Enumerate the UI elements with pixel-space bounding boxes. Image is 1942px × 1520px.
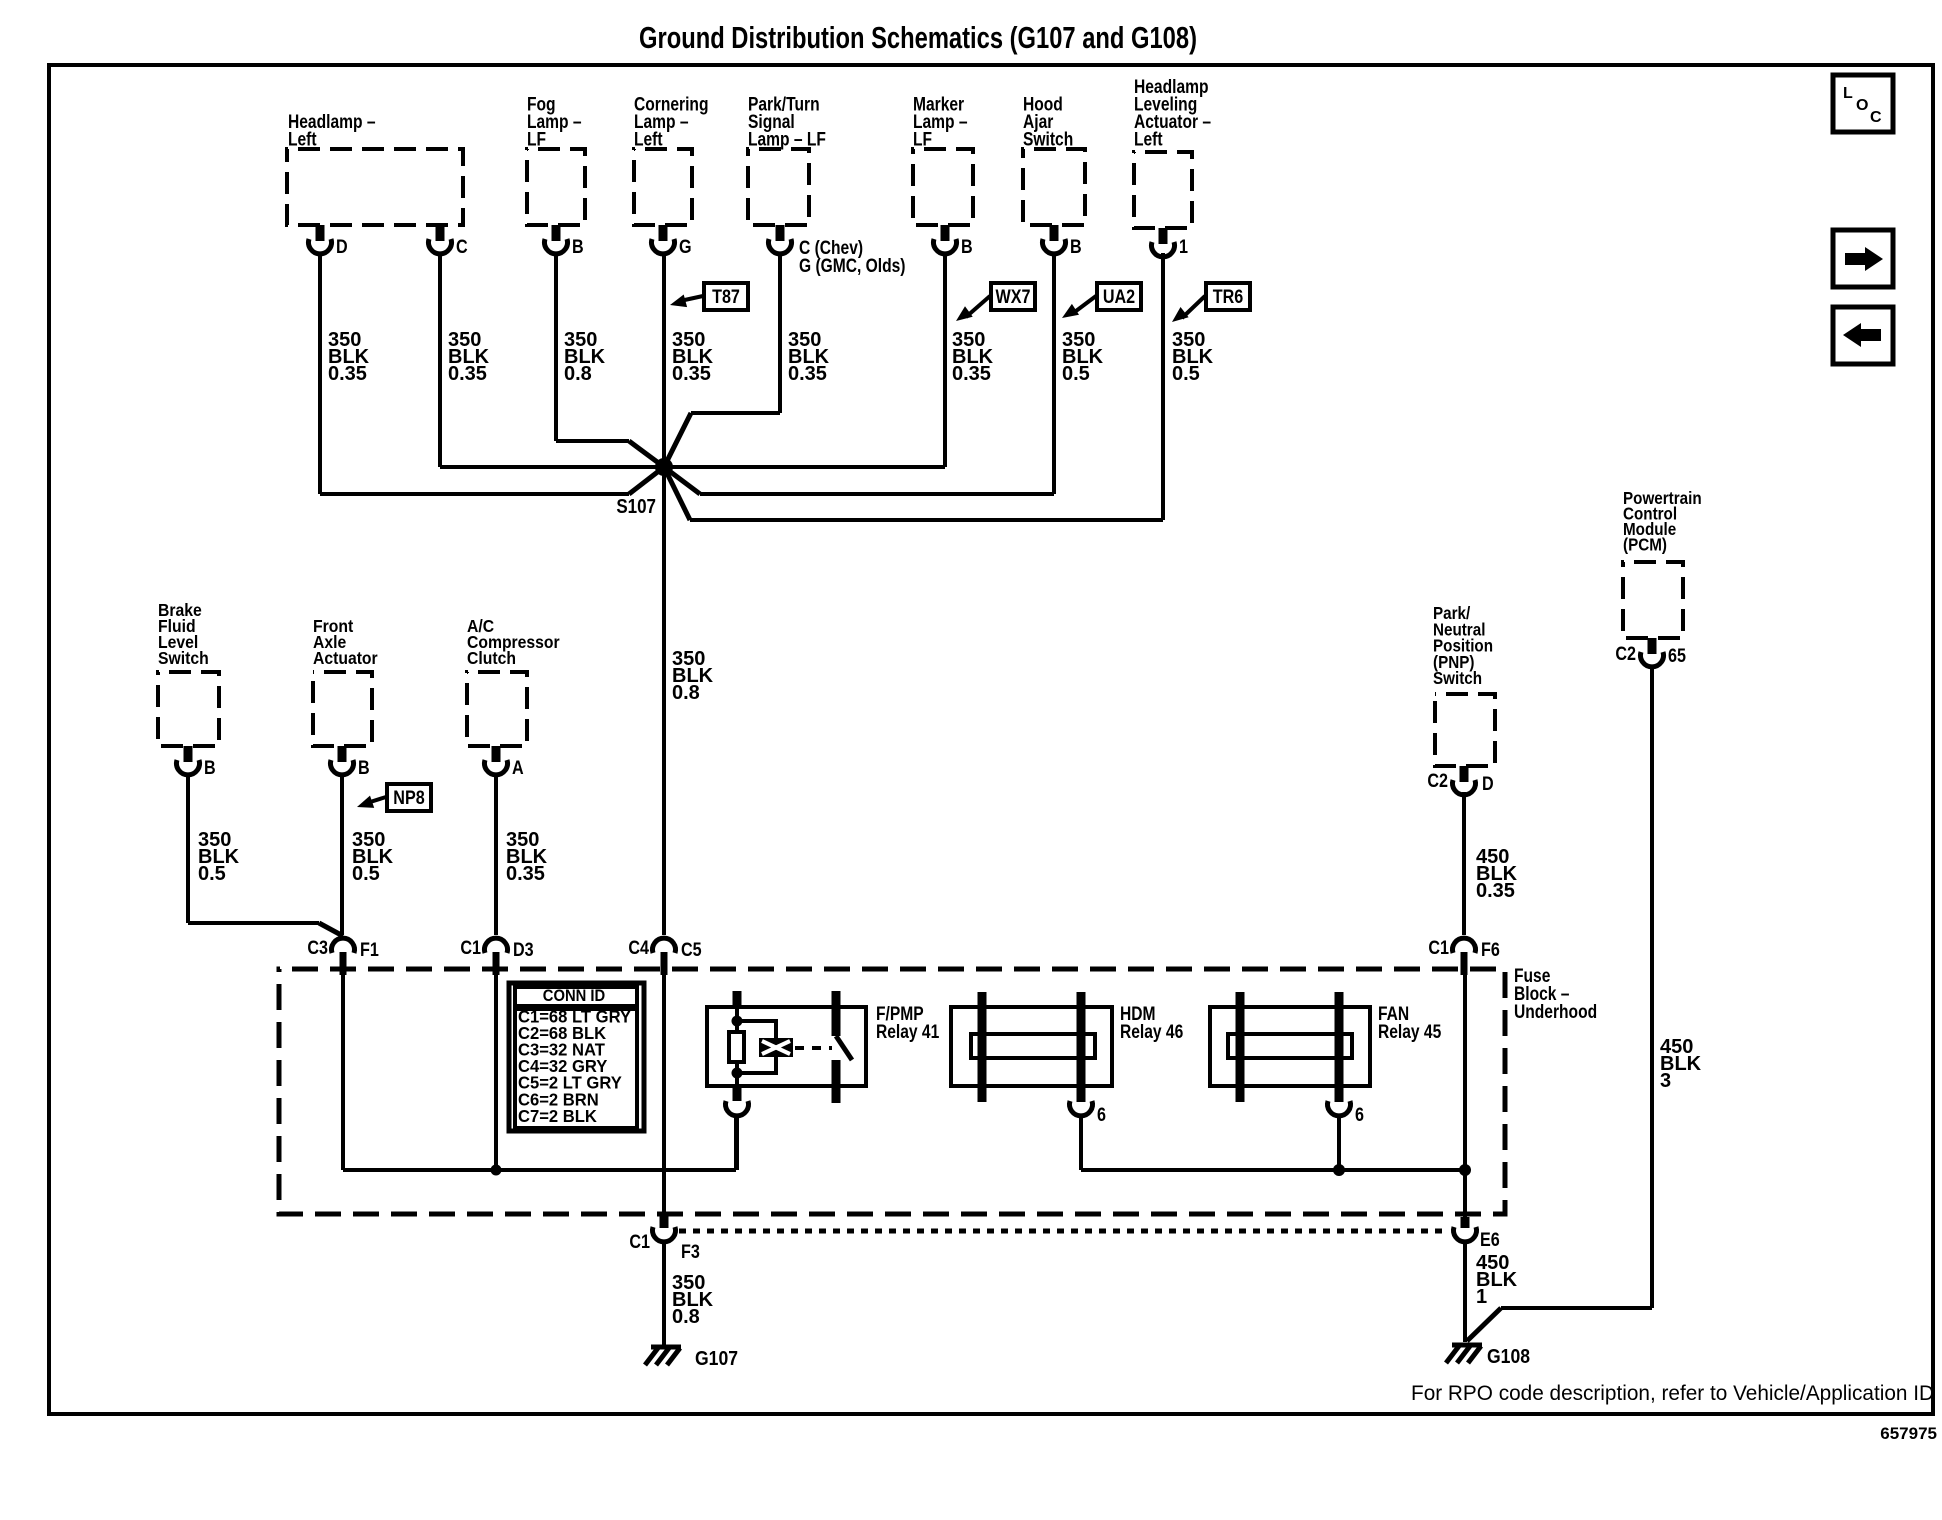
svg-text:O: O — [1856, 97, 1868, 114]
svg-text:1: 1 — [1179, 236, 1188, 258]
svg-text:B: B — [1070, 236, 1082, 258]
svg-text:B: B — [572, 236, 584, 258]
svg-text:TR6: TR6 — [1213, 286, 1244, 308]
svg-text:0.5: 0.5 — [352, 863, 380, 885]
svg-text:F1: F1 — [360, 939, 379, 961]
svg-text:B: B — [961, 236, 973, 258]
svg-text:C: C — [456, 236, 468, 258]
svg-text:0.8: 0.8 — [672, 1306, 700, 1328]
svg-text:Switch: Switch — [158, 648, 209, 668]
svg-text:G (GMC, Olds): G (GMC, Olds) — [799, 254, 905, 276]
svg-text:G108: G108 — [1487, 1345, 1530, 1367]
svg-text:657975: 657975 — [1880, 1424, 1937, 1443]
svg-text:F6: F6 — [1481, 939, 1500, 961]
svg-text:0.35: 0.35 — [328, 363, 367, 385]
svg-text:C7=2 BLK: C7=2 BLK — [518, 1107, 598, 1126]
svg-text:0.35: 0.35 — [448, 363, 487, 385]
svg-text:0.8: 0.8 — [672, 682, 700, 704]
svg-text:Clutch: Clutch — [467, 648, 516, 668]
svg-text:C2: C2 — [1615, 643, 1636, 665]
svg-text:C: C — [1870, 109, 1882, 126]
svg-text:0.8: 0.8 — [564, 363, 592, 385]
svg-text:LF: LF — [527, 128, 546, 150]
svg-text:D: D — [336, 236, 348, 258]
svg-text:T87: T87 — [712, 286, 740, 308]
svg-text:C1: C1 — [1428, 937, 1449, 959]
svg-text:0.5: 0.5 — [1172, 363, 1200, 385]
svg-text:Switch: Switch — [1023, 128, 1073, 150]
svg-text:Switch: Switch — [1433, 669, 1482, 688]
svg-text:LF: LF — [913, 128, 932, 150]
svg-text:0.35: 0.35 — [506, 863, 545, 885]
svg-text:C4: C4 — [628, 937, 649, 959]
svg-text:0.5: 0.5 — [1062, 363, 1090, 385]
svg-text:65: 65 — [1668, 645, 1686, 667]
svg-text:(PCM): (PCM) — [1623, 536, 1667, 555]
svg-text:Left: Left — [634, 128, 663, 150]
svg-text:G: G — [679, 236, 692, 258]
svg-text:B: B — [204, 757, 216, 779]
svg-text:Left: Left — [288, 128, 317, 150]
svg-text:C3: C3 — [307, 937, 328, 959]
svg-text:E6: E6 — [1480, 1229, 1500, 1251]
svg-text:0.5: 0.5 — [198, 863, 226, 885]
svg-text:Relay 45: Relay 45 — [1378, 1020, 1441, 1042]
svg-text:S107: S107 — [616, 495, 656, 518]
svg-text:6: 6 — [1355, 1104, 1364, 1126]
svg-text:UA2: UA2 — [1103, 286, 1135, 308]
svg-text:C1: C1 — [460, 937, 481, 959]
svg-text:NP8: NP8 — [393, 787, 425, 809]
svg-text:Relay 46: Relay 46 — [1120, 1020, 1183, 1042]
svg-text:6: 6 — [1097, 1104, 1106, 1126]
svg-text:Left: Left — [1134, 128, 1163, 150]
svg-text:Lamp – LF: Lamp – LF — [748, 128, 826, 150]
svg-text:WX7: WX7 — [996, 286, 1031, 308]
svg-text:D: D — [1482, 773, 1494, 795]
svg-text:CONN ID: CONN ID — [543, 987, 605, 1005]
svg-text:C2: C2 — [1427, 770, 1448, 792]
svg-text:A: A — [512, 757, 524, 779]
svg-text:L: L — [1843, 85, 1853, 102]
svg-text:C1: C1 — [629, 1231, 650, 1253]
svg-text:C5: C5 — [681, 939, 702, 961]
svg-text:G107: G107 — [695, 1347, 738, 1369]
svg-text:For RPO code description, refe: For RPO code description, refer to Vehic… — [1411, 1382, 1934, 1405]
svg-text:0.35: 0.35 — [788, 363, 827, 385]
svg-text:0.35: 0.35 — [672, 363, 711, 385]
svg-text:D3: D3 — [513, 939, 534, 961]
svg-text:0.35: 0.35 — [1476, 880, 1515, 902]
svg-text:Ground Distribution Schematics: Ground Distribution Schematics (G107 and… — [639, 20, 1197, 55]
svg-text:Actuator: Actuator — [313, 648, 378, 668]
svg-text:Underhood: Underhood — [1514, 1000, 1597, 1022]
svg-text:3: 3 — [1660, 1070, 1671, 1092]
svg-text:F3: F3 — [681, 1241, 700, 1263]
svg-text:0.35: 0.35 — [952, 363, 991, 385]
svg-text:1: 1 — [1476, 1286, 1487, 1308]
svg-text:Relay 41: Relay 41 — [876, 1020, 939, 1042]
svg-text:B: B — [358, 757, 370, 779]
